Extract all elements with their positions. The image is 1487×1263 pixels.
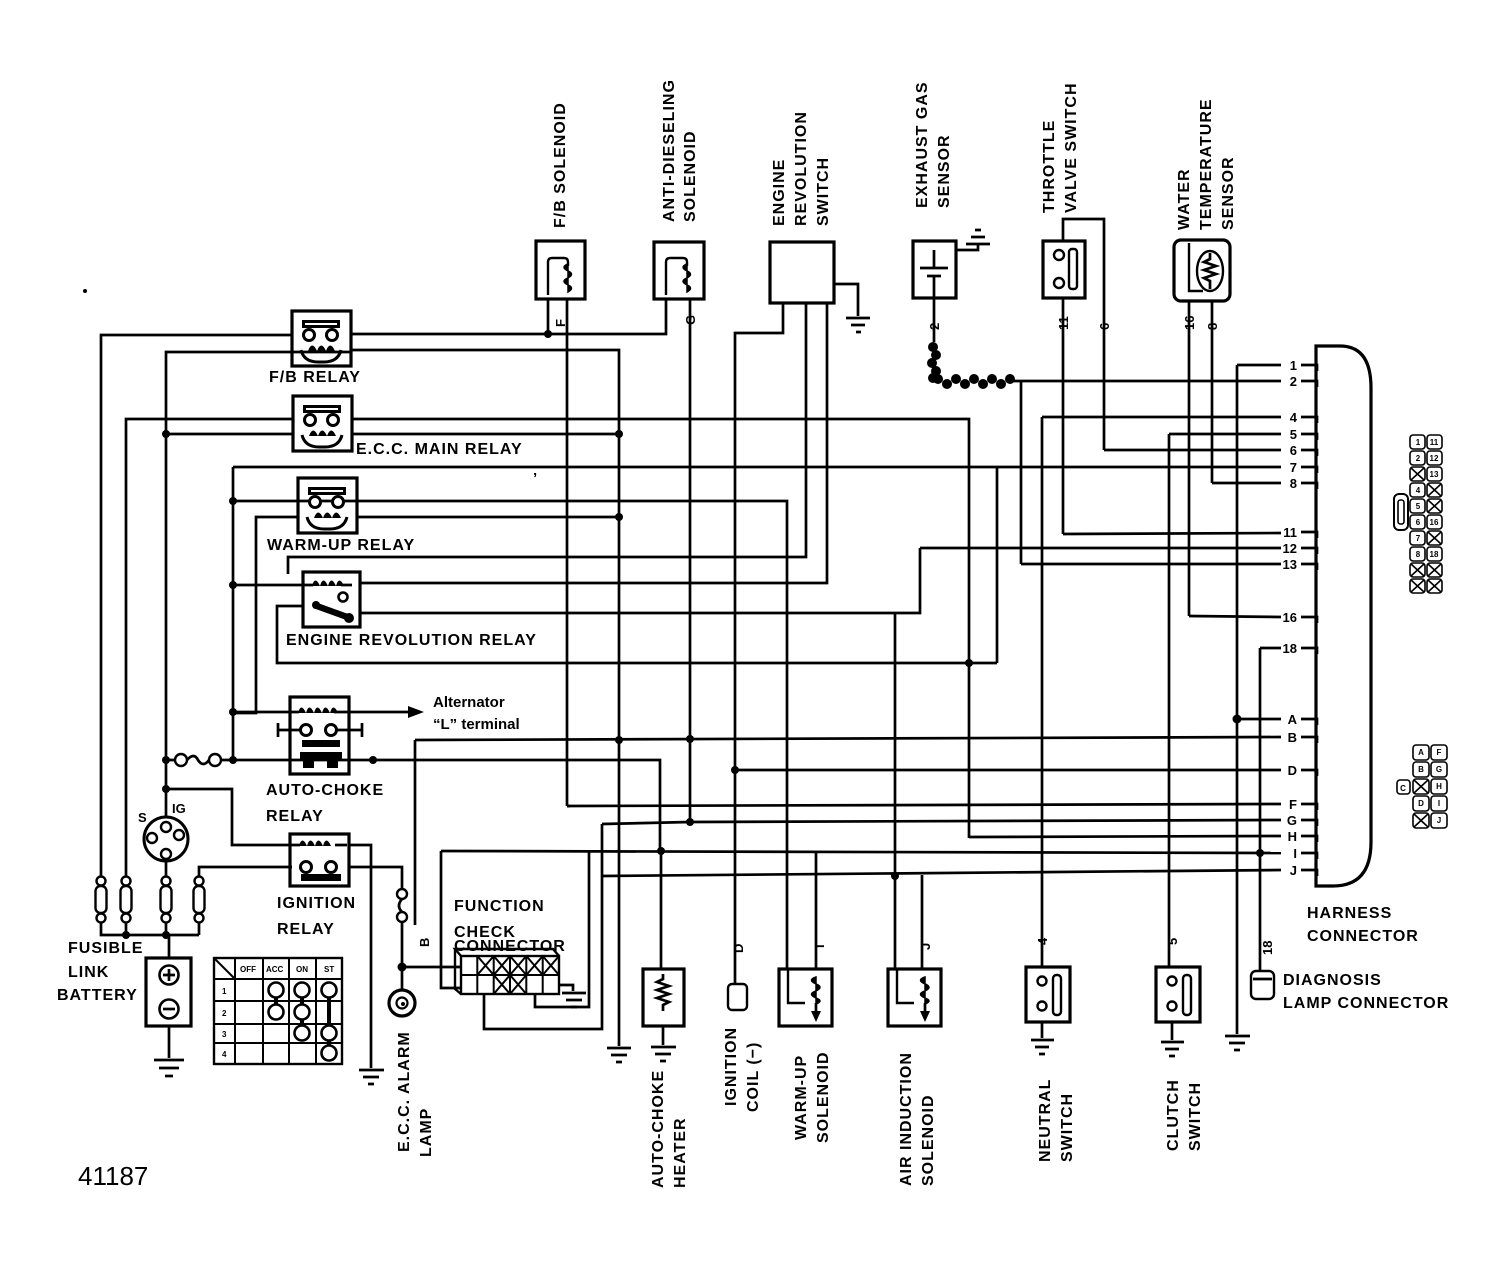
svg-text:CONNECTOR: CONNECTOR xyxy=(454,938,566,955)
wire: F/B solenoid right pin down to row F (labeled F) xyxy=(567,299,570,806)
wire: x=1237 vertical from row 1 through node A to ground xyxy=(1236,365,1239,1034)
wire: clutch switch drop labeled 5 xyxy=(1168,434,1171,967)
svg-text:FUNCTION: FUNCTION xyxy=(454,898,545,915)
E.C.C. alarm lamp xyxy=(389,990,435,1157)
ignition switch xyxy=(138,801,188,861)
wire: row 13 to pin 13 xyxy=(1021,563,1281,566)
svg-text:REVOLUTION: REVOLUTION xyxy=(793,111,810,226)
relay ENGINE REVOLUTION RELAY xyxy=(286,572,537,649)
svg-text:2: 2 xyxy=(222,1009,227,1018)
svg-text:4: 4 xyxy=(1035,937,1050,945)
svg-text:I: I xyxy=(1293,846,1297,861)
wire: FCC lower stub to x=589 riser joining row I xyxy=(535,852,589,1007)
svg-text:D: D xyxy=(1418,799,1424,808)
wire: x=602 vertical from row G down to FCC bottom loop xyxy=(484,824,602,1029)
node: junction fuse row on x=166 xyxy=(162,756,170,764)
svg-text:G: G xyxy=(1436,765,1442,774)
svg-text:G: G xyxy=(683,315,698,325)
wire: row 16 to pin 16 xyxy=(1189,616,1281,617)
stray scan dot xyxy=(83,289,87,293)
svg-text:4: 4 xyxy=(1290,410,1298,425)
wire: ignition relay coil right to x=371 down to ground xyxy=(348,845,371,1068)
wire: row J from x=602 tee to pin J xyxy=(602,870,1281,876)
node: junction row D on ignition coil column xyxy=(731,766,739,774)
svg-text:HARNESS: HARNESS xyxy=(1307,905,1392,922)
connector pin-grid icon (lettered) xyxy=(1413,745,1429,760)
ground: auto-choke heater xyxy=(651,1047,676,1061)
wire: ignition relay circle row right to x=402 down through connector to lamp xyxy=(348,867,402,889)
wire: neutral switch drop labeled 4 xyxy=(1041,417,1044,967)
air induction solenoid xyxy=(888,969,941,1026)
svg-text:ACC: ACC xyxy=(266,965,284,974)
auto-choke heater xyxy=(643,969,684,1026)
coil: horizontal shield winding xyxy=(933,374,1015,389)
wire: engine revolution relay coil row from x=233 dot xyxy=(233,584,305,587)
clip tab C on lettered pin-grid xyxy=(1397,780,1410,794)
svg-text:EXHAUST GAS: EXHAUST GAS xyxy=(914,81,931,208)
wire: ignition relay circle row left to x=199 fusible link column xyxy=(199,867,292,877)
wire: throttle valve switch top pin jog to x=1104 labeled 6 xyxy=(1063,219,1104,450)
wire: water temp sensor left pin 16 down to row 16 xyxy=(1188,301,1191,616)
warm-up solenoid xyxy=(779,969,832,1026)
svg-text:HEATER: HEATER xyxy=(672,1117,689,1188)
anti-dieseling solenoid xyxy=(654,242,704,299)
svg-text:3: 3 xyxy=(222,1030,227,1039)
node: junction x=619 on row B xyxy=(615,736,623,744)
wire: battery negative to ground xyxy=(168,1026,171,1058)
wire: row F to pin F xyxy=(567,804,1281,806)
wire: warm-up relay coil row right to dot x=619 xyxy=(356,516,619,519)
svg-text:I: I xyxy=(812,944,827,948)
svg-text:1: 1 xyxy=(222,987,227,996)
wire: F/B solenoid left pin drop xyxy=(547,299,550,334)
wire: row A to pin A xyxy=(1237,718,1281,721)
svg-text:1: 1 xyxy=(1416,438,1421,447)
svg-text:F: F xyxy=(1437,748,1442,757)
wire: row 2 from shield end to pin 2 xyxy=(1013,380,1281,383)
node: junction x=660 on row I xyxy=(657,847,665,855)
svg-text:11: 11 xyxy=(1430,438,1439,447)
wire: battery feed from bus xyxy=(168,935,171,958)
wire: ECC main relay coil row right to dot at x=619 xyxy=(352,433,619,436)
wire: ignition switch feed row 789 to x=232 drop to ignition relay coil xyxy=(166,789,292,845)
node: junction row 789 on x=166 xyxy=(162,785,170,793)
svg-text:13: 13 xyxy=(1283,557,1297,572)
svg-text:F: F xyxy=(1289,797,1297,812)
svg-text:13: 13 xyxy=(1430,470,1439,479)
wire: F/B relay coil row right, down at x=619 to ground xyxy=(351,350,619,1046)
wire: warm-up relay coil row left loop down to auto-choke coil row xyxy=(234,517,298,713)
svg-text:FUSIBLE: FUSIBLE xyxy=(68,940,143,957)
svg-text:SENSOR: SENSOR xyxy=(936,134,953,208)
node: junction warm-up coil row with x=619 xyxy=(615,513,623,521)
svg-text:LAMP: LAMP xyxy=(418,1108,435,1157)
svg-text:2: 2 xyxy=(1416,454,1421,463)
svg-text:2: 2 xyxy=(927,323,942,330)
harness connector body xyxy=(1316,346,1371,886)
svg-text:18: 18 xyxy=(1430,550,1439,559)
svg-text:11: 11 xyxy=(1056,316,1071,330)
fusible link 1 xyxy=(96,877,107,923)
svg-text:7: 7 xyxy=(1416,534,1421,543)
svg-text:“L” terminal: “L” terminal xyxy=(433,716,520,733)
svg-text:J: J xyxy=(918,943,933,950)
svg-text:IG: IG xyxy=(172,801,186,816)
wire: FCC ground stub xyxy=(559,985,573,991)
svg-text:ENGINE: ENGINE xyxy=(771,159,788,226)
wire: row 1 from x=1237 corner to pin 1 xyxy=(1237,364,1281,367)
svg-text:7: 7 xyxy=(1290,460,1297,475)
node: junction warm-up top row on x=233 xyxy=(229,497,237,505)
svg-text:CLUTCH: CLUTCH xyxy=(1165,1079,1182,1151)
svg-text:WARM-UP: WARM-UP xyxy=(793,1055,810,1140)
svg-text:AIR INDUCTION: AIR INDUCTION xyxy=(898,1052,915,1186)
wire: ECC main relay top row right to x=969 drop, down to row663, down to row H xyxy=(352,419,969,838)
svg-text:D: D xyxy=(1288,763,1297,778)
svg-text:2: 2 xyxy=(1290,374,1297,389)
water temperature sensor xyxy=(1174,240,1230,301)
wire: engine rev relay left loop down to row 663 xyxy=(277,606,997,663)
fusible link 2 xyxy=(121,877,132,923)
svg-text:DIAGNOSIS: DIAGNOSIS xyxy=(1283,972,1382,989)
svg-text:F/B SOLENOID: F/B SOLENOID xyxy=(552,102,569,228)
wire: x=895 vertical from row 613 down to air induction row J dot xyxy=(894,613,897,876)
ground: bottom of x=619 vertical xyxy=(607,1048,631,1062)
wire: row I from x=441 corner to pin I xyxy=(441,851,1281,853)
wire: row 11 to pin 11 xyxy=(1063,533,1281,534)
svg-text:LAMP CONNECTOR: LAMP CONNECTOR xyxy=(1283,995,1449,1012)
wire: engine rev switch ground stub xyxy=(834,284,858,316)
svg-text:IGNITION: IGNITION xyxy=(277,895,356,912)
svg-text:6: 6 xyxy=(1416,518,1421,527)
svg-text:B: B xyxy=(1288,730,1297,745)
svg-text:8: 8 xyxy=(1290,476,1297,491)
svg-text:J: J xyxy=(1437,816,1441,825)
svg-text:11: 11 xyxy=(1283,525,1297,540)
svg-text:COIL (−): COIL (−) xyxy=(745,1042,762,1112)
node: junction fuse row x=373 xyxy=(369,756,377,764)
svg-text:H: H xyxy=(1288,829,1297,844)
wire: x=997 vertical from row 7 to row 663 xyxy=(996,467,999,663)
node: junction auto-choke coil row on x=233 xyxy=(229,708,237,716)
svg-text:’: ’ xyxy=(533,470,537,487)
svg-text:IGNITION: IGNITION xyxy=(723,1027,740,1106)
wire: row 8 to pin 8 xyxy=(1212,482,1281,485)
node: junction diagnosis lamp wire on row I xyxy=(1256,849,1264,857)
svg-text:F: F xyxy=(553,319,568,327)
svg-text:5: 5 xyxy=(1290,427,1297,442)
F/B solenoid xyxy=(536,241,585,299)
wire: heater feed continues from x=660 dot down to auto-choke heater xyxy=(660,851,663,969)
svg-text:WARM-UP RELAY: WARM-UP RELAY xyxy=(267,537,415,554)
svg-text:D: D xyxy=(731,944,746,953)
ground: battery ground xyxy=(154,1060,184,1076)
svg-text:ENGINE REVOLUTION RELAY: ENGINE REVOLUTION RELAY xyxy=(286,632,537,649)
svg-text:41187: 41187 xyxy=(78,1161,148,1191)
svg-text:12: 12 xyxy=(1283,541,1297,556)
svg-text:ANTI-DIESELING: ANTI-DIESELING xyxy=(661,79,678,222)
svg-text:A: A xyxy=(1288,712,1298,727)
fusible link 4 xyxy=(194,877,205,923)
svg-text:C: C xyxy=(1400,784,1406,793)
svg-text:LINK: LINK xyxy=(68,964,109,981)
node: junction bus x=126 xyxy=(122,931,130,939)
wire: row D to pin D xyxy=(735,769,1281,772)
svg-text:WATER: WATER xyxy=(1176,168,1193,230)
svg-text:SWITCH: SWITCH xyxy=(1059,1093,1076,1162)
coil: vertical shield winding xyxy=(927,342,941,383)
wire: row 5 right segment corner to pin 5 xyxy=(1169,433,1281,436)
svg-text:VALVE SWITCH: VALVE SWITCH xyxy=(1063,82,1080,213)
diagnosis lamp connector xyxy=(1251,971,1274,999)
wire: air induction right pin J riser xyxy=(921,875,924,969)
svg-text:ST: ST xyxy=(324,965,334,974)
svg-text:SWITCH: SWITCH xyxy=(1187,1082,1204,1151)
svg-text:1: 1 xyxy=(1290,358,1297,373)
svg-text:S: S xyxy=(138,810,147,825)
wire: x=1021 drop from row 2 to row 13 xyxy=(1020,381,1023,564)
wire: F/B relay top row right to F/B solenoid junction and anti-dieseling left pin xyxy=(351,299,666,334)
svg-text:5: 5 xyxy=(1165,938,1180,945)
fuse: fusible link symbol on row 760 xyxy=(175,754,187,766)
wire: x=1260 from row 18 down to diagnosis lamp connector xyxy=(1259,648,1262,971)
ground: function check connector xyxy=(562,993,586,1007)
relay WARM-UP RELAY xyxy=(298,478,357,533)
exhaust gas sensor xyxy=(913,241,956,298)
wire: row 7 from corner x=233 to pin 7 xyxy=(233,466,1281,469)
wire: lamp junction to function check connector xyxy=(402,966,461,969)
svg-text:I: I xyxy=(1438,799,1440,808)
node: junction A on x=1237 xyxy=(1233,715,1242,724)
svg-text:G: G xyxy=(1287,813,1297,828)
wire: row 6 to pin 6 xyxy=(1104,449,1281,452)
svg-text:A: A xyxy=(1418,748,1424,757)
svg-text:SOLENOID: SOLENOID xyxy=(920,1094,937,1186)
wire: air induction left pin drop xyxy=(894,876,897,969)
svg-text:F/B RELAY: F/B RELAY xyxy=(269,369,361,386)
node: junction fuse row x=233 xyxy=(229,756,237,764)
wire: engine rev switch left pin jog to ignition coil column xyxy=(735,303,783,984)
wire: warm-up solenoid right pin I riser to row I xyxy=(815,852,818,969)
engine revolution switch xyxy=(770,242,834,303)
wire: x=233 column row7 corner down to fuse row xyxy=(232,467,235,758)
wire: F/B relay top row to left column xyxy=(101,335,292,877)
node: junction alarm lamp / FCC feed xyxy=(398,963,407,972)
svg-text:NEUTRAL: NEUTRAL xyxy=(1037,1079,1054,1162)
wire: exhaust gas sensor pin down to shield coil xyxy=(933,298,936,342)
ignition switch position table xyxy=(214,958,342,1064)
node: junction x=690 on row G xyxy=(686,818,694,826)
svg-text:8: 8 xyxy=(1205,323,1220,330)
ground: bottom of x=1237 xyxy=(1225,1036,1250,1050)
svg-text:RELAY: RELAY xyxy=(277,921,335,938)
neutral switch xyxy=(1026,967,1070,1022)
wire: engine rev relay bottom row right to x=920 up to row 12 xyxy=(360,548,920,613)
svg-text:E.C.C. ALARM: E.C.C. ALARM xyxy=(396,1031,413,1152)
wire: row 18 corner to pin 18 xyxy=(1260,647,1281,650)
node: junction engine rev coil row on x=233 xyxy=(229,581,237,589)
battery xyxy=(57,940,191,1026)
wire: fuse row 758 from x=166 to fuse and through auto-choke relay to corner x=660 xyxy=(166,760,660,851)
function check connector xyxy=(454,898,566,994)
svg-text:6: 6 xyxy=(1290,443,1297,458)
wire: warm-up relay top row from x=233 to drop x=787 down to warm-up solenoid xyxy=(233,501,787,969)
wire: FCC upper feed from row 851 corner x=441 xyxy=(441,851,461,988)
svg-text:E.C.C. MAIN RELAY: E.C.C. MAIN RELAY xyxy=(356,441,523,458)
arrowhead: alternator L terminal xyxy=(408,706,424,718)
fusible link 3 xyxy=(161,877,172,923)
wire: x=166 column from F/B coil row through ignition switch xyxy=(166,352,351,818)
wire: row 12 from x=920 to pin 12 xyxy=(920,547,1281,550)
svg-text:BATTERY: BATTERY xyxy=(57,987,138,1004)
wire: ECC main relay top row left to x=126 column xyxy=(126,419,293,877)
wire: x=415 vertical stub labeled B xyxy=(414,740,417,925)
svg-text:AUTO-CHOKE: AUTO-CHOKE xyxy=(266,782,384,799)
svg-text:H: H xyxy=(1436,782,1442,791)
throttle valve switch xyxy=(1043,241,1085,298)
ground: clutch switch xyxy=(1161,1042,1184,1056)
wire: auto-choke coil right to alternator arrow xyxy=(348,711,410,714)
wire: row G from x=602 corner to pin G xyxy=(602,820,1281,824)
wire: ignition switch bottom to fusible link xyxy=(165,860,168,877)
svg-text:SWITCH: SWITCH xyxy=(815,157,832,226)
svg-text:TEMPERATURE: TEMPERATURE xyxy=(1198,98,1215,230)
svg-text:RELAY: RELAY xyxy=(266,808,324,825)
svg-text:THROTTLE: THROTTLE xyxy=(1041,120,1058,213)
wire: water temp sensor right pin 8 down to row 8 xyxy=(1211,301,1214,483)
node: junction ECC coil row with x=619 xyxy=(615,430,623,438)
svg-text:ON: ON xyxy=(296,965,308,974)
node: junction ECC coil row on x=166 xyxy=(162,430,170,438)
wire: engine rev relay right coil row to x=827 up to engine rev switch right pin xyxy=(360,303,827,583)
svg-text:OFF: OFF xyxy=(240,965,256,974)
connector pin-grid icon (numbered) xyxy=(1410,435,1425,449)
svg-text:12: 12 xyxy=(1430,454,1439,463)
svg-text:18: 18 xyxy=(1260,941,1275,955)
wire: row H from x=969 to pin H xyxy=(969,836,1281,837)
svg-text:J: J xyxy=(1290,863,1297,878)
node: junction x=969 on row 663 xyxy=(965,659,973,667)
ground: exhaust sensor shield ground xyxy=(966,230,990,244)
clip tab on numbered pin-grid xyxy=(1394,494,1408,530)
svg-text:CONNECTOR: CONNECTOR xyxy=(1307,928,1419,945)
relay F/B RELAY xyxy=(292,311,351,366)
svg-text:16: 16 xyxy=(1430,518,1439,527)
connector: inline 2-circle connector on alarm lamp wire xyxy=(397,889,407,899)
wire: exhaust sensor ground stub xyxy=(956,244,978,250)
ignition coil (-) xyxy=(728,984,747,1010)
relay E.C.C. MAIN RELAY xyxy=(293,396,352,451)
svg-text:AUTO-CHOKE: AUTO-CHOKE xyxy=(650,1070,667,1188)
node: junction air induction left pin on row J xyxy=(891,872,899,880)
svg-text:6: 6 xyxy=(1097,323,1112,330)
clutch switch xyxy=(1156,967,1200,1022)
node: junction F/B solenoid left pin xyxy=(544,330,552,338)
wire: anti-dieseling solenoid right pin G down to row G xyxy=(689,299,692,822)
node: junction x=690 on row B xyxy=(686,735,694,743)
relay AUTO-CHOKE RELAY xyxy=(266,697,384,825)
svg-text:4: 4 xyxy=(1416,486,1421,495)
svg-text:SOLENOID: SOLENOID xyxy=(815,1051,832,1143)
svg-text:Alternator: Alternator xyxy=(433,694,505,711)
relay IGNITION RELAY xyxy=(277,834,356,938)
svg-text:SOLENOID: SOLENOID xyxy=(682,130,699,222)
svg-text:16: 16 xyxy=(1182,316,1197,330)
svg-text:SENSOR: SENSOR xyxy=(1220,156,1237,230)
wire: ECC main relay coil row left to x=166 xyxy=(166,433,293,436)
wire: row B from x=415 corner to pin B xyxy=(415,737,1281,740)
ground: ignition relay coil return xyxy=(359,1070,384,1084)
wire: row 4 left segment from ECC relay (already drawn) ; row 4 right segment from x=1042 xyxy=(1042,416,1281,419)
svg-text:18: 18 xyxy=(1283,641,1297,656)
svg-text:16: 16 xyxy=(1283,610,1297,625)
wire: auto-choke relay coil row from x=233 dot xyxy=(233,711,292,714)
ground: engine revolution switch xyxy=(846,318,870,332)
node: junction bus x=166 xyxy=(162,931,170,939)
wire: throttle valve switch bottom pin labeled 11 down to row 11 xyxy=(1062,298,1065,534)
svg-text:4: 4 xyxy=(222,1050,227,1059)
svg-text:5: 5 xyxy=(1416,502,1421,511)
ground: neutral switch xyxy=(1031,1040,1054,1054)
wire: bus row 935 under fusible links xyxy=(101,920,199,935)
wire: row 557 from stub to x=806 up to engine rev switch middle pin xyxy=(288,303,806,574)
svg-text:B: B xyxy=(417,938,432,947)
svg-text:B: B xyxy=(1418,765,1424,774)
svg-text:8: 8 xyxy=(1416,550,1421,559)
